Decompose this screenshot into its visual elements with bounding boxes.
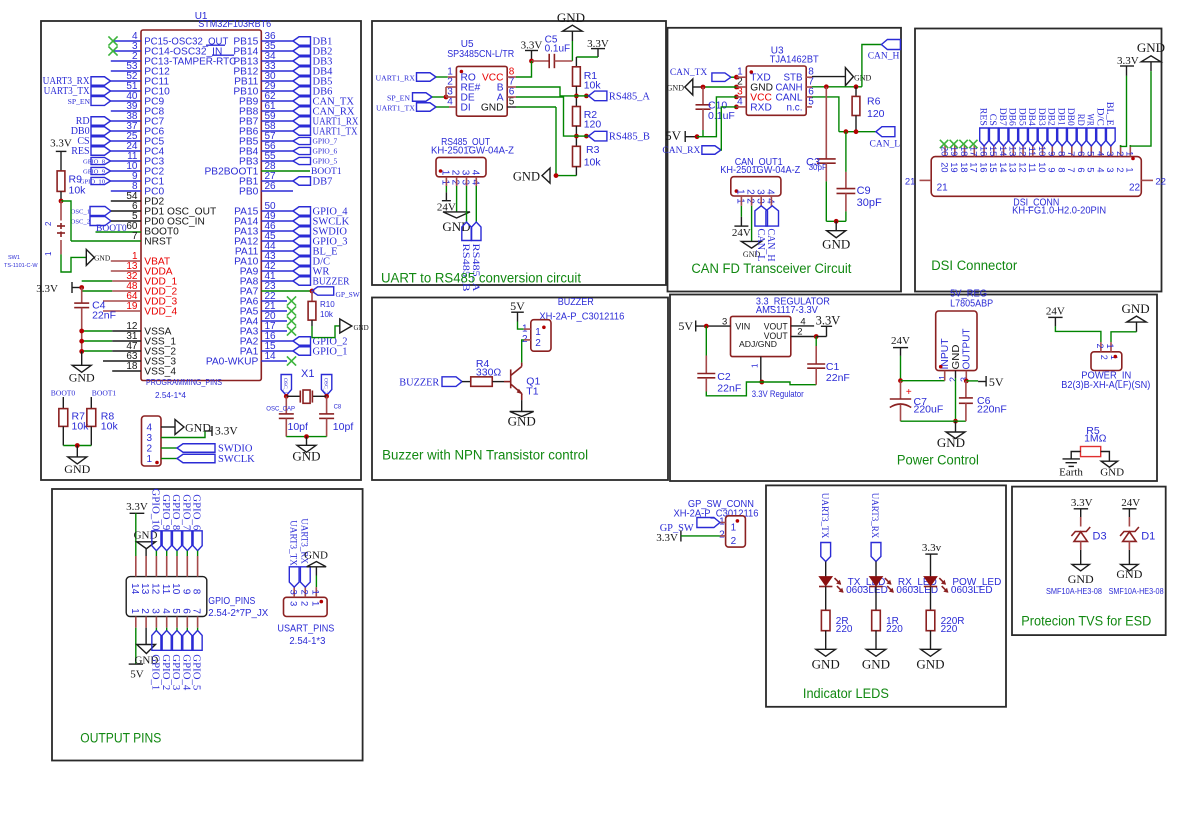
net flag DB1	[261, 40, 293, 42]
wire	[826, 220, 846, 222]
svg-text:22nF: 22nF	[717, 383, 741, 395]
svg-text:GND: GND	[508, 414, 536, 429]
svg-text:330Ω: 330Ω	[476, 367, 502, 379]
wire	[930, 587, 932, 611]
capacitor OSC_CAP 10pf	[279, 413, 294, 415]
wire	[571, 41, 573, 61]
svg-text:GPIO_8: GPIO_8	[83, 158, 106, 165]
pin 8 (DSI_CONN)	[1061, 145, 1063, 157]
svg-text:8: 8	[1056, 151, 1066, 156]
pin stub CANH	[806, 86, 812, 88]
svg-text:NRST: NRST	[144, 236, 172, 247]
svg-text:1: 1	[735, 198, 746, 204]
pin stub STB	[806, 76, 812, 78]
svg-text:13: 13	[139, 583, 150, 595]
wire CAN_L row	[839, 131, 876, 133]
resistor R3 10k	[573, 146, 581, 166]
svg-text:DB3: DB3	[1036, 108, 1046, 126]
block frame: Power control	[670, 295, 1157, 482]
svg-text:GPIO_9: GPIO_9	[83, 168, 106, 175]
svg-text:USART_PINS: USART_PINS	[277, 624, 334, 635]
svg-text:2: 2	[719, 530, 725, 541]
svg-text:1: 1	[735, 189, 746, 195]
svg-text:20: 20	[939, 162, 949, 172]
wire RXD	[721, 107, 737, 150]
pin 10 (GPIO_PINS top)	[176, 556, 178, 577]
pin stub	[507, 86, 516, 88]
svg-text:OSC_1: OSC_1	[71, 209, 90, 216]
svg-text:UART to RS485 conversion circu: UART to RS485 conversion circuit	[381, 271, 581, 286]
wire	[705, 378, 707, 392]
svg-text:12: 12	[1017, 146, 1027, 156]
block frame: DSI connector	[915, 29, 1162, 292]
pin 2 (USART_PINS)	[304, 587, 306, 597]
junction dot	[79, 285, 84, 290]
svg-text:TJA1462BT: TJA1462BT	[770, 54, 819, 65]
net flag GPIO_9 (vertical)	[162, 531, 171, 551]
svg-text:1: 1	[937, 375, 947, 380]
wire	[311, 320, 313, 326]
svg-text:10: 10	[1037, 162, 1047, 172]
svg-text:21: 21	[937, 183, 949, 194]
wire	[462, 381, 471, 383]
svg-text:GPIO_5: GPIO_5	[313, 157, 338, 166]
wire	[432, 96, 446, 98]
svg-text:DSI Connector: DSI Connector	[931, 258, 1017, 273]
svg-text:C2: C2	[717, 371, 731, 383]
wire	[575, 167, 577, 176]
diode D3 (TVS)	[1080, 517, 1082, 527]
net flag BL_E (DSI pin 3)	[1106, 128, 1115, 146]
LED RX_LED 0603LED	[870, 577, 883, 586]
net flag RD (DSI pin 6)	[1077, 128, 1086, 146]
svg-text:3: 3	[287, 601, 298, 606]
svg-text:RD: RD	[1075, 114, 1085, 126]
wire pin1 to 5V	[135, 628, 137, 664]
svg-text:UART3_TX: UART3_TX	[819, 493, 830, 539]
wire 24V to POWER_IN pin2	[1055, 326, 1101, 342]
svg-text:13: 13	[1008, 162, 1018, 172]
net flag CAN_H	[881, 40, 900, 50]
capacitor C5 0.1uF	[532, 60, 550, 62]
svg-text:GND: GND	[937, 435, 965, 450]
svg-text:DB0: DB0	[1065, 108, 1075, 126]
svg-text:2: 2	[1095, 344, 1105, 349]
svg-text:22nF: 22nF	[92, 310, 116, 322]
net flag DB0	[91, 127, 111, 136]
svg-text:220nF: 220nF	[977, 404, 1007, 416]
net flag D/C	[261, 260, 293, 262]
svg-text:17: 17	[969, 162, 979, 172]
wire	[60, 151, 62, 171]
svg-text:3.3V Regulator: 3.3V Regulator	[752, 389, 804, 400]
bottom rail	[901, 420, 966, 422]
svg-text:GND: GND	[1100, 467, 1124, 479]
net flag GPIO_5 (vertical)	[193, 630, 202, 650]
svg-text:3: 3	[1105, 167, 1115, 172]
junction dot	[814, 334, 819, 339]
capacitor C2 22nF	[697, 373, 715, 375]
block frame: STM32 MCU	[41, 21, 361, 480]
svg-text:5: 5	[808, 96, 814, 107]
capacitor C10 0.1uF	[702, 87, 704, 105]
resistor R8 10k	[87, 409, 96, 427]
svg-text:GP_SW: GP_SW	[336, 290, 360, 299]
net flag DB2	[261, 50, 293, 52]
transistor Q1 T1 (NPN)	[504, 381, 511, 383]
net flag GPIO_4	[261, 210, 293, 212]
junction dots pins	[734, 75, 739, 80]
svg-text:GND: GND	[481, 102, 504, 113]
pin 2 (GPIO_PINS bottom)	[145, 617, 147, 628]
svg-text:DI: DI	[461, 102, 471, 113]
wire GND to POWER_IN pin1	[1111, 332, 1137, 342]
resistor 220R 220	[926, 610, 935, 630]
no-connect X	[287, 326, 296, 335]
no-connect X	[969, 140, 977, 148]
svg-text:7: 7	[132, 231, 138, 242]
no-connect X	[950, 140, 958, 148]
svg-text:RS485_A: RS485_A	[609, 91, 650, 103]
connector POWER_IN B2(3)B-XH-A(LF)(SN)	[1091, 352, 1122, 371]
net flag CAN_RX	[702, 146, 721, 155]
resistor R9 10k	[57, 171, 65, 192]
net flag UART3_TX (led)	[821, 543, 831, 562]
svg-text:DB2: DB2	[1046, 108, 1056, 126]
svg-text:OSC_1: OSC_1	[282, 378, 288, 394]
net flag GPIO_3	[261, 240, 293, 242]
net flag CAN_L	[876, 127, 895, 137]
resistor R7 10k	[59, 409, 68, 427]
svg-text:4: 4	[160, 608, 171, 614]
wire	[286, 395, 300, 397]
svg-text:22: 22	[1129, 183, 1141, 194]
wire	[825, 631, 827, 650]
svg-text:10pf: 10pf	[288, 421, 309, 433]
svg-text:DB4: DB4	[1026, 108, 1036, 126]
resistor R1 10k	[573, 67, 581, 86]
capacitor C6 220nF	[965, 381, 967, 398]
net flag GPIO_8 (vertical)	[172, 531, 181, 551]
svg-text:GPIO_6: GPIO_6	[313, 147, 338, 156]
svg-text:3: 3	[460, 180, 471, 186]
pin stub	[449, 106, 456, 108]
wire	[556, 175, 576, 177]
svg-text:2.54-2*7P_JX: 2.54-2*7P_JX	[208, 608, 268, 619]
wire	[492, 381, 504, 383]
svg-text:RES: RES	[71, 146, 89, 157]
block frame: Indicator LEDs	[766, 485, 1006, 706]
net flag DB5	[261, 80, 293, 82]
svg-text:GND: GND	[667, 84, 685, 93]
wire pin2 to GND	[751, 206, 753, 242]
wire	[90, 397, 92, 409]
svg-text:2: 2	[1099, 355, 1109, 360]
net flag DB4	[261, 70, 293, 72]
pin 10 (DSI_CONN)	[1042, 145, 1044, 157]
pin 15 (DSI_CONN)	[993, 145, 995, 157]
svg-text:10k: 10k	[320, 310, 334, 319]
wire	[286, 436, 326, 438]
svg-text:CAN_L: CAN_L	[870, 139, 901, 149]
power flag 5V (gpio)	[129, 663, 143, 665]
svg-text:2: 2	[535, 338, 541, 349]
net flag CAN_H (vertical)	[766, 206, 779, 226]
junction dots	[284, 394, 289, 399]
ground	[68, 457, 87, 464]
wire	[135, 513, 137, 556]
svg-text:2: 2	[450, 170, 461, 176]
svg-text:GPIO_1: GPIO_1	[313, 347, 348, 358]
pin 12 (DSI_CONN)	[1022, 145, 1024, 157]
ground (arrow)	[542, 168, 550, 183]
wire	[702, 109, 704, 130]
svg-text:UART3_RX: UART3_RX	[869, 493, 880, 539]
wire	[966, 380, 978, 382]
pin stub	[507, 96, 516, 98]
svg-text:220: 220	[836, 624, 853, 635]
svg-text:L7805ABP: L7805ABP	[950, 299, 993, 310]
net flag SP_EN	[91, 97, 111, 106]
wire	[518, 322, 524, 330]
net flag GPIO_1	[261, 350, 293, 352]
svg-text:12: 12	[1017, 162, 1027, 172]
resistor R6 120	[855, 87, 857, 97]
wire	[306, 437, 308, 446]
pin 9 (DSI_CONN)	[1051, 145, 1053, 157]
svg-text:3.3V: 3.3V	[215, 426, 238, 438]
pin 14 (GPIO_PINS top)	[135, 556, 137, 577]
svg-text:SP_EN: SP_EN	[387, 93, 410, 102]
ground	[866, 649, 886, 656]
net flag DB3 (DSI pin 10)	[1038, 128, 1047, 146]
svg-text:12: 12	[150, 583, 161, 595]
wire	[436, 76, 448, 78]
svg-text:4: 4	[469, 180, 480, 186]
svg-text:UART1_TX: UART1_TX	[376, 103, 415, 112]
svg-text:22: 22	[1155, 177, 1166, 188]
pin 13 (GPIO_PINS top)	[145, 556, 147, 577]
block frame: TVS	[1012, 487, 1166, 635]
wire	[285, 396, 287, 414]
svg-text:GND: GND	[94, 253, 111, 262]
svg-text:GPIO_1: GPIO_1	[150, 654, 161, 690]
ground	[1072, 564, 1089, 571]
pin 6 (DSI_CONN)	[1081, 145, 1083, 157]
wire VDD_1	[82, 280, 113, 282]
net BOOT1 wire	[261, 170, 310, 172]
svg-text:4: 4	[147, 423, 153, 434]
svg-text:6: 6	[1076, 151, 1086, 156]
svg-text:AMS1117-3.3V: AMS1117-3.3V	[756, 305, 818, 316]
junction dot	[953, 419, 958, 424]
svg-text:GND: GND	[1137, 40, 1165, 55]
svg-text:10k: 10k	[101, 421, 119, 433]
connector DSI_CONN KH-FG1.0-H2.0-20PIN	[931, 157, 1141, 197]
capacitor C1 22nF	[815, 337, 817, 347]
block frame: UART to RS485	[372, 21, 666, 285]
pin 3 (USART_PINS)	[293, 587, 295, 597]
svg-text:n.c.: n.c.	[787, 102, 803, 113]
svg-text:5: 5	[1086, 151, 1096, 156]
svg-text:3: 3	[287, 590, 298, 595]
svg-text:X1: X1	[301, 368, 314, 380]
svg-text:GPIO_4: GPIO_4	[180, 654, 191, 690]
svg-text:2: 2	[745, 189, 756, 195]
wire	[521, 400, 523, 411]
svg-text:UART3_TX: UART3_TX	[44, 86, 91, 97]
svg-text:GND: GND	[513, 170, 540, 184]
svg-text:OUTPUT PINS: OUTPUT PINS	[80, 731, 161, 746]
pin stubs U3 left	[736, 76, 746, 78]
svg-text:15: 15	[988, 162, 998, 172]
svg-text:BUZZER: BUZZER	[399, 378, 439, 389]
wire 3.3V to pin2	[1121, 76, 1127, 146]
svg-text:DB6: DB6	[1007, 108, 1017, 126]
svg-text:Indicator LEDS: Indicator LEDS	[803, 686, 889, 701]
svg-text:GND: GND	[557, 10, 585, 25]
ground	[72, 365, 91, 372]
svg-text:6: 6	[1076, 167, 1086, 172]
svg-text:CAN FD Transceiver Circuit: CAN FD Transceiver Circuit	[691, 261, 851, 276]
svg-text:3: 3	[460, 170, 471, 176]
svg-text:BL_E: BL_E	[1104, 102, 1114, 126]
resistor R10 10k	[311, 291, 313, 301]
ground	[443, 212, 470, 218]
svg-text:120: 120	[584, 119, 602, 131]
svg-text:1MΩ: 1MΩ	[1084, 433, 1107, 445]
svg-text:+: +	[906, 387, 912, 398]
svg-text:26: 26	[265, 181, 277, 192]
wire CANL	[812, 97, 839, 132]
wire	[63, 445, 91, 447]
no-connect X	[959, 140, 967, 148]
ground (arrow) left	[685, 79, 693, 95]
block frame: Output pins	[52, 489, 363, 761]
svg-text:CAN_H: CAN_H	[868, 52, 900, 62]
no-connect X	[287, 356, 296, 365]
pin3 wire to 3.3V	[161, 431, 205, 438]
svg-text:B2(3)B-XH-A(LF)(SN): B2(3)B-XH-A(LF)(SN)	[1061, 380, 1150, 391]
pin 1 (GPIO_PINS bottom)	[135, 617, 137, 628]
svg-text:2: 2	[44, 221, 53, 226]
svg-text:8: 8	[191, 589, 202, 595]
svg-text:DB7: DB7	[997, 108, 1007, 126]
pin 14 (DSI_CONN)	[1003, 145, 1005, 157]
svg-text:24V: 24V	[732, 227, 751, 239]
junction dot	[444, 95, 449, 100]
svg-text:SW1: SW1	[8, 255, 20, 261]
svg-text:XH-2A-P_C3012116: XH-2A-P_C3012116	[539, 312, 624, 323]
svg-text:10: 10	[1037, 146, 1047, 156]
svg-text:1: 1	[129, 608, 140, 614]
svg-text:PA0-WKUP: PA0-WKUP	[206, 356, 259, 367]
svg-text:INPUT: INPUT	[940, 339, 951, 370]
net flag SP_EN	[413, 93, 433, 102]
net flag CAN_TX	[261, 100, 293, 102]
pin stub n.c.	[806, 106, 812, 108]
net flag CAN_TX	[712, 73, 731, 82]
svg-text:KH-2501GW-04A-Z: KH-2501GW-04A-Z	[720, 165, 800, 176]
net flag RS485_A	[589, 91, 607, 101]
svg-text:11: 11	[1027, 163, 1037, 173]
net flag GPIO_7	[261, 140, 293, 142]
svg-text:1: 1	[535, 327, 541, 338]
wire VCC	[516, 61, 532, 77]
net flag DB7 (DSI pin 14)	[999, 128, 1008, 146]
junction dot	[701, 85, 706, 90]
junction dot	[695, 134, 700, 139]
svg-text:GND: GND	[854, 74, 872, 83]
svg-text:RXD: RXD	[750, 102, 772, 113]
wire	[693, 86, 703, 88]
svg-text:D3: D3	[1093, 531, 1107, 543]
svg-text:3: 3	[754, 189, 765, 195]
LED POW_LED 0603LED	[924, 577, 937, 586]
net flag GP_SW	[697, 518, 720, 528]
svg-text:VDD_4: VDD_4	[144, 306, 177, 317]
svg-text:STM32F103RBT6: STM32F103RBT6	[198, 19, 271, 30]
svg-text:2: 2	[948, 377, 958, 382]
wire	[930, 631, 932, 650]
ground	[921, 649, 941, 656]
net flag DB3	[261, 60, 293, 62]
svg-text:120: 120	[867, 108, 885, 120]
net flag BUZZER	[442, 377, 462, 387]
svg-text:1: 1	[731, 523, 737, 534]
resistor R4 330	[471, 377, 493, 387]
wire VSS	[82, 340, 113, 342]
net flag SWDIO	[261, 230, 293, 232]
svg-text:5V: 5V	[665, 128, 682, 143]
wire	[930, 554, 932, 577]
pin 1 (DSI_CONN)	[1129, 145, 1131, 157]
no-connect X	[108, 36, 117, 45]
svg-text:5: 5	[170, 608, 181, 614]
svg-text:2: 2	[298, 590, 309, 595]
svg-text:3.3v: 3.3v	[922, 542, 942, 554]
svg-text:5V: 5V	[678, 319, 693, 333]
svg-text:2: 2	[139, 608, 150, 614]
net flag SWDIO	[161, 447, 177, 449]
svg-text:RES: RES	[977, 108, 987, 126]
capacitor C8 10pf	[319, 413, 334, 415]
svg-text:1: 1	[440, 170, 451, 176]
wire	[731, 76, 737, 78]
svg-text:1: 1	[1125, 167, 1135, 172]
svg-text:2: 2	[1115, 151, 1125, 156]
net flag UART1_RX	[261, 120, 293, 122]
junction dot	[759, 380, 764, 385]
svg-text:10k: 10k	[69, 185, 87, 197]
svg-text:4: 4	[469, 170, 480, 176]
wire pin2 to GND	[456, 186, 458, 212]
net flag RES (DSI pin 16)	[980, 128, 989, 146]
net flag SWCLK	[261, 220, 293, 222]
svg-text:1: 1	[1125, 151, 1135, 156]
pin 8 (GPIO_PINS top)	[197, 556, 199, 577]
svg-text:2.54-1*3: 2.54-1*3	[289, 636, 325, 647]
svg-text:C8: C8	[334, 404, 342, 410]
svg-text:T1: T1	[526, 386, 538, 398]
svg-text:VIN: VIN	[735, 322, 750, 332]
pin 2 (DSI_CONN)	[1120, 145, 1122, 157]
net flag GPIO_1 (vertical)	[152, 630, 161, 650]
wire	[1101, 452, 1110, 462]
svg-text:DB5: DB5	[1016, 108, 1026, 126]
capacitor C9 30pF	[845, 132, 847, 172]
net flag DB0 (DSI pin 7)	[1067, 128, 1076, 146]
